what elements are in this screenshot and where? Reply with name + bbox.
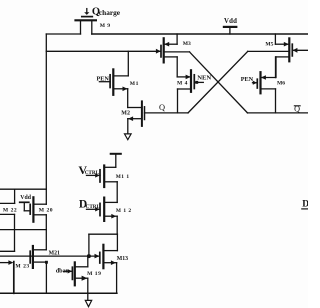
M2 gate bar: [144, 107, 146, 120]
svg-text:M 23: M 23: [15, 264, 29, 270]
M3 source top lead: [164, 43, 177, 45]
M1 gate bar: [109, 75, 111, 88]
transistor M3: [161, 34, 190, 77]
svg-text:D: D: [302, 199, 308, 209]
svg-text:M 20: M 20: [39, 207, 53, 213]
M11 drain lead: [104, 166, 116, 168]
M21 channel bar: [32, 246, 34, 268]
M1 channel bar: [112, 69, 114, 94]
M6 drain lead: [261, 77, 276, 79]
M19 drain lead: [75, 266, 88, 268]
M4 drain arrowhead: [186, 75, 191, 80]
M19 gate arrowhead: [68, 269, 73, 273]
M5 source arrowhead: [284, 42, 289, 47]
M12 drain lead: [104, 201, 117, 203]
M5 gate lead to right edge: [292, 49, 308, 51]
M3 gate bar: [160, 46, 162, 57]
power Vdd tap (M20): [20, 202, 31, 211]
node Qbar wire: [248, 112, 309, 114]
M11 source vertical: [116, 182, 118, 203]
M2 source vertical to ground: [127, 119, 129, 134]
M1 source lead: [113, 88, 127, 90]
link vertical to mirror node dot: [88, 234, 90, 256]
junction dot at M21 source corner: [45, 261, 48, 264]
svg-text:PEN: PEN: [97, 76, 110, 83]
M9 gate input lead: [86, 9, 88, 12]
wire M3-drain diagonal to Qbar: [190, 52, 248, 113]
svg-text:M 9: M 9: [100, 23, 111, 29]
M13 gate bar: [99, 252, 101, 263]
M13 drain lead: [103, 250, 117, 252]
M13 source vertical to ground bus: [116, 263, 118, 294]
M6 source vertical down to Qbar: [275, 89, 277, 113]
node mirror bus (gate bus to M13/M21): [0, 255, 99, 257]
wire M22 source vertical: [14, 214, 16, 251]
M13 source arrowhead: [111, 260, 116, 265]
Vdd stem: [229, 27, 231, 34]
M12 source arrowhead: [111, 214, 116, 219]
T stem: [115, 154, 117, 168]
wire M22 branch vertical: [14, 189, 16, 203]
wire top bus left segment: [46, 33, 80, 35]
svg-text:M1 1: M1 1: [116, 174, 130, 180]
svg-text:M13: M13: [117, 256, 128, 262]
M20 gate bar: [29, 204, 31, 214]
svg-text:M 22: M 22: [3, 207, 17, 213]
M2 channel bar: [141, 101, 143, 126]
M19 source arrowhead: [82, 276, 88, 281]
M12 source vertical: [116, 216, 118, 234]
svg-text:M3: M3: [183, 41, 191, 47]
M5 source-to-Vdd vertical: [274, 34, 276, 44]
M9 channel bar: [76, 19, 96, 21]
M21 source lead: [33, 261, 47, 263]
transistor M13: [100, 234, 118, 293]
svg-text:CTRL: CTRL: [86, 204, 101, 210]
wire left main vertical upper: [45, 34, 47, 204]
transistor M19: [64, 256, 88, 293]
M19 channel bar: [74, 262, 76, 285]
svg-text:Vdd: Vdd: [224, 18, 237, 25]
T bar: [111, 153, 121, 155]
wire M22 upper horizontal: [0, 188, 46, 190]
Vdd T bar: [224, 26, 236, 28]
M13 drain vertical up: [116, 234, 118, 250]
M4 source vertical to Q: [177, 89, 179, 113]
svg-text:CTRL: CTRL: [85, 170, 100, 176]
Vdd20 stem: [23, 202, 25, 211]
M1 drain vertical to bus2: [127, 51, 129, 76]
M3 channel bar: [163, 38, 165, 62]
M19 source lead: [75, 277, 88, 279]
M11 gate arrowhead: [95, 173, 100, 177]
M9 gate bar: [82, 16, 93, 18]
Qbar overline: [294, 105, 301, 107]
M2 source arrowhead: [128, 116, 133, 121]
svg-text:NEN: NEN: [197, 74, 211, 81]
wire M22 branch lower to edge: [0, 202, 15, 204]
wire M22 source from edge: [0, 213, 15, 215]
svg-text:M5: M5: [265, 42, 273, 48]
wire bus2 (M9 left leg / M1 drain / M3 gate net): [46, 50, 160, 52]
M2 drain lead: [128, 107, 142, 109]
transistor M6: [253, 57, 276, 113]
M12 source lead: [104, 215, 117, 217]
M3 bottom-lead vertical down to M4: [176, 57, 178, 77]
power Vdd tap (top): [224, 27, 236, 34]
Vdd20 jog to gate: [24, 210, 30, 212]
M6 channel bar: [259, 72, 261, 93]
Vdd20 bar: [20, 201, 29, 203]
svg-text:PEN: PEN: [241, 76, 254, 83]
M5 channel bar: [288, 38, 290, 61]
wire M5-drain diagonal to Q: [188, 51, 248, 113]
transistor M23 (edge cut): [0, 262, 14, 294]
M13 channel bar: [102, 245, 104, 268]
M23 gate lead from edge: [0, 262, 10, 264]
M6 source lead: [261, 88, 276, 90]
M12 gate bar: [99, 203, 101, 215]
M3 bottom lead: [164, 56, 177, 58]
M9 left leg: [80, 20, 82, 34]
M3 source arrowhead: [164, 42, 169, 47]
M5 gate arrowhead: [293, 48, 298, 53]
svg-text:M 1 2: M 1 2: [116, 208, 132, 214]
svg-text:charge: charge: [99, 8, 121, 17]
node mirror dot: [87, 254, 91, 258]
M12 gate lead: [87, 208, 101, 210]
M21 source vertical to ground bus: [45, 262, 47, 293]
M3 source-to-Vdd vertical: [176, 34, 178, 44]
transistor M1: [99, 51, 128, 107]
M4 gate bar: [193, 75, 195, 89]
M21 gate bar: [29, 251, 31, 263]
M5 source top lead: [275, 43, 289, 45]
M1 source vertical down: [127, 89, 129, 108]
M6 drain arrowhead: [261, 75, 266, 80]
svg-text:M 19: M 19: [87, 271, 101, 277]
M1 drain lead: [113, 75, 128, 77]
D fragment underline: [301, 208, 308, 210]
M19 gate lead: [64, 270, 72, 272]
ground bus bottom: [0, 292, 117, 294]
transistor M5: [248, 34, 308, 78]
power T tap above M11: [111, 154, 121, 168]
M6 gate lead from PEN: [253, 82, 258, 84]
M5 gate bar: [291, 44, 293, 56]
M13 gate arrowhead: [95, 254, 100, 259]
M4 drain lead from M3: [177, 76, 191, 78]
M5 bottom lead: [276, 56, 289, 58]
transistor M4: [177, 70, 203, 113]
transistor M20: [30, 197, 46, 221]
M11 gate bar: [99, 170, 101, 182]
M1 gate lead: [99, 81, 110, 83]
M11 source lead: [104, 181, 117, 183]
M20 channel bar: [32, 197, 34, 221]
M12 gate arrowhead: [95, 207, 100, 211]
M5 drain lead: [248, 50, 290, 52]
wire M22 lower stub to edge: [0, 250, 15, 252]
M21 drain lead: [33, 249, 46, 251]
M12-M13 link horizontal: [89, 233, 118, 235]
M4 channel bar: [190, 70, 192, 92]
svg-text:M6: M6: [277, 81, 285, 87]
ground symbol bottom: [85, 300, 91, 306]
M13 source lead: [103, 262, 116, 264]
M9 right leg: [91, 20, 93, 34]
M6 gate arrowhead: [253, 81, 257, 85]
M6 gate bar: [256, 79, 258, 88]
M4 NEN gate dot: [195, 81, 198, 84]
transistor M21: [30, 246, 46, 293]
M23 bar/vertical to ground bus: [13, 262, 15, 294]
M5 bottom-lead vertical down to M6: [275, 57, 277, 78]
M12 channel bar: [103, 198, 105, 221]
M4 NEN gate stub: [194, 81, 203, 83]
M19 source vertical to ground bus: [87, 278, 89, 293]
M11 channel bar: [103, 166, 105, 188]
transistor M12: [87, 198, 118, 257]
M3 gate arrowhead: [156, 49, 161, 54]
M9 gate input arrowhead: [84, 12, 89, 15]
M1 source arrowhead: [123, 87, 128, 92]
M3 drain lead: [164, 51, 190, 53]
svg-text:Q: Q: [159, 103, 165, 112]
ground stem under M19: [87, 293, 89, 300]
transistor M11: [87, 166, 118, 203]
M11 gate lead: [87, 174, 101, 176]
wire left main vertical lower: [45, 215, 47, 250]
transistor M2: [128, 101, 145, 133]
svg-text:M2: M2: [121, 110, 130, 116]
wire mid-left bus: [0, 229, 46, 231]
M19 drain vertical to dot: [87, 256, 89, 267]
svg-text:M1: M1: [130, 81, 139, 87]
M6 drain vertical up: [275, 57, 277, 78]
ground symbol under M2: [125, 134, 132, 140]
transistor M9: [76, 9, 96, 34]
svg-text:M21: M21: [49, 251, 60, 257]
M20 source lead: [33, 214, 46, 216]
svg-text:M 4: M 4: [177, 81, 188, 87]
M4 source lead: [178, 88, 192, 90]
M20 drain lead: [33, 203, 46, 205]
wire top bus right segment: [92, 33, 308, 35]
M19 gate bar: [71, 267, 73, 279]
node Q wire: [145, 112, 189, 114]
M23 gate arrowhead: [8, 260, 13, 265]
svg-text:Vdd: Vdd: [20, 195, 31, 201]
M2 source lead: [128, 118, 142, 120]
svg-text:dbar: dbar: [56, 268, 69, 275]
